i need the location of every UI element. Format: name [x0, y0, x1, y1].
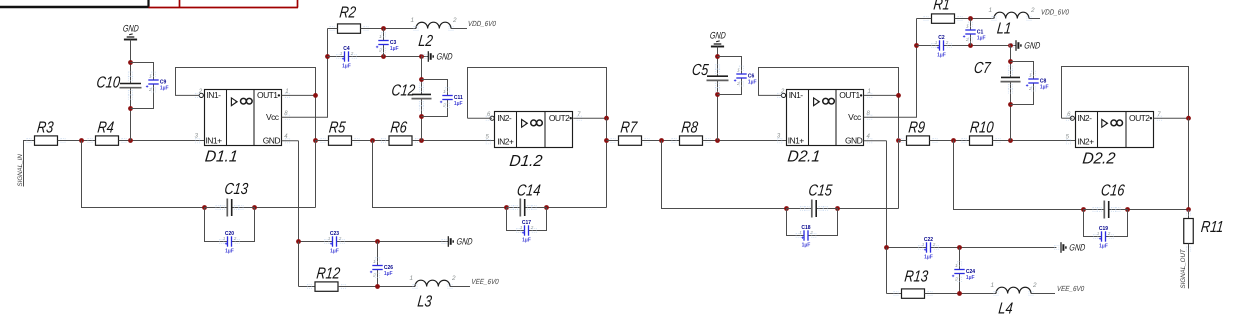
svg-text:1: 1 [1097, 231, 1100, 236]
svg-text:2: 2 [452, 17, 457, 24]
svg-text:1µF: 1µF [748, 80, 757, 86]
svg-text:1: 1 [922, 242, 925, 247]
svg-text:1: 1 [988, 7, 992, 14]
svg-text:1µF: 1µF [1099, 244, 1108, 250]
svg-text:D1.1: D1.1 [204, 148, 239, 165]
svg-text:L2: L2 [418, 33, 434, 51]
svg-text:L4: L4 [998, 300, 1014, 318]
svg-text:C6: C6 [748, 73, 755, 79]
svg-text:GND: GND [845, 136, 863, 146]
svg-text:8: 8 [284, 111, 288, 117]
svg-text:C16: C16 [1100, 182, 1126, 200]
svg-text:R6: R6 [390, 119, 409, 137]
svg-text:1: 1 [799, 230, 802, 235]
svg-text:C5: C5 [691, 62, 710, 80]
svg-text:1: 1 [340, 51, 343, 56]
svg-text:1µF: 1µF [160, 86, 169, 92]
svg-text:1: 1 [868, 89, 871, 95]
svg-text:IN2-: IN2- [497, 113, 512, 123]
svg-text:IN1+: IN1+ [788, 136, 805, 146]
svg-text:R5: R5 [328, 119, 347, 137]
svg-text:VEE_6V0: VEE_6V0 [1057, 286, 1085, 294]
svg-text:1µF: 1µF [966, 275, 975, 281]
svg-text:OUT1: OUT1 [839, 90, 860, 100]
svg-text:GND: GND [1024, 41, 1041, 51]
svg-text:1: 1 [409, 275, 413, 282]
svg-text:GND: GND [263, 136, 281, 146]
svg-text:1µF: 1µF [390, 46, 399, 52]
svg-text:1: 1 [990, 282, 994, 289]
svg-text:1: 1 [410, 17, 414, 24]
svg-text:1µF: 1µF [384, 271, 393, 277]
svg-text:2: 2 [350, 51, 354, 56]
svg-text:1: 1 [935, 40, 938, 45]
svg-text:VDD_6V0: VDD_6V0 [1041, 9, 1070, 17]
svg-text:1µF: 1µF [225, 249, 234, 255]
svg-text:R3: R3 [36, 119, 54, 137]
svg-text:C12: C12 [391, 82, 416, 100]
svg-text:R13: R13 [904, 268, 929, 286]
svg-text:R11: R11 [1200, 219, 1224, 237]
svg-text:C7: C7 [973, 60, 992, 78]
svg-text:2: 2 [932, 242, 936, 247]
svg-text:VEE_6V0: VEE_6V0 [471, 279, 499, 287]
svg-text:4: 4 [867, 134, 871, 140]
svg-text:VDD_6V0: VDD_6V0 [468, 21, 497, 29]
svg-text:8: 8 [867, 111, 871, 117]
svg-text:D2.1: D2.1 [787, 148, 822, 165]
svg-text:C14: C14 [516, 182, 541, 200]
svg-text:2: 2 [945, 40, 949, 45]
svg-text:GND: GND [1069, 243, 1086, 253]
svg-text:7: 7 [1157, 112, 1161, 118]
svg-text:OUT2: OUT2 [1129, 113, 1150, 123]
svg-text:1µF: 1µF [330, 249, 339, 255]
svg-text:4: 4 [284, 134, 288, 140]
svg-text:IN2-: IN2- [1078, 113, 1093, 123]
svg-text:1µF: 1µF [342, 64, 351, 70]
svg-text:C9: C9 [160, 79, 167, 85]
svg-text:C24: C24 [966, 269, 975, 275]
svg-text:Vcc: Vcc [848, 112, 862, 122]
svg-text:L3: L3 [417, 293, 433, 311]
svg-text:7: 7 [577, 112, 581, 118]
svg-text:2: 2 [809, 230, 813, 235]
svg-text:1µF: 1µF [454, 101, 463, 107]
svg-text:1µF: 1µF [937, 53, 946, 59]
svg-text:C13: C13 [224, 181, 249, 199]
svg-text:C3: C3 [390, 40, 397, 46]
svg-text:R2: R2 [339, 4, 357, 22]
svg-text:IN2+: IN2+ [1078, 137, 1095, 147]
svg-text:2: 2 [198, 89, 203, 95]
svg-text:2: 2 [1030, 7, 1035, 14]
svg-text:2: 2 [451, 275, 456, 282]
svg-text:Vcc: Vcc [266, 112, 280, 122]
svg-text:1µF: 1µF [1040, 85, 1049, 91]
svg-text:R8: R8 [681, 119, 699, 137]
svg-text:2: 2 [233, 236, 237, 241]
svg-text:2: 2 [780, 89, 785, 95]
svg-text:SIGNAL_IN: SIGNAL_IN [17, 154, 24, 187]
svg-text:2: 2 [338, 236, 342, 241]
svg-text:OUT2: OUT2 [549, 113, 570, 123]
svg-text:1: 1 [285, 89, 288, 95]
svg-text:IN1+: IN1+ [206, 136, 223, 146]
svg-text:IN1-: IN1- [789, 90, 804, 100]
svg-text:C15: C15 [808, 182, 834, 200]
svg-text:C26: C26 [384, 265, 393, 271]
svg-text:1µF: 1µF [924, 255, 933, 261]
svg-text:IN1-: IN1- [207, 90, 222, 100]
svg-text:SIGNAL_OUT: SIGNAL_OUT [1180, 248, 1187, 288]
svg-text:C10: C10 [96, 74, 121, 92]
svg-text:D1.2: D1.2 [509, 153, 544, 170]
svg-text:1µF: 1µF [802, 243, 811, 249]
svg-text:OUT1: OUT1 [257, 90, 278, 100]
svg-text:GND: GND [456, 237, 473, 247]
svg-text:R1: R1 [933, 0, 951, 14]
svg-text:2: 2 [1107, 231, 1111, 236]
svg-text:R9: R9 [908, 119, 926, 137]
svg-text:2: 2 [530, 225, 534, 230]
svg-text:1: 1 [223, 236, 226, 241]
svg-text:C1: C1 [977, 29, 984, 35]
svg-text:GND: GND [436, 52, 453, 62]
svg-text:GND: GND [709, 29, 726, 40]
svg-text:D2.2: D2.2 [1082, 150, 1117, 167]
svg-text:C11: C11 [454, 95, 463, 101]
svg-text:C4: C4 [343, 46, 350, 52]
svg-text:R10: R10 [969, 119, 994, 137]
svg-text:R4: R4 [97, 119, 115, 137]
svg-text:L1: L1 [996, 20, 1012, 38]
svg-text:1µF: 1µF [522, 238, 531, 244]
svg-text:C2: C2 [938, 35, 945, 41]
svg-text:IN2+: IN2+ [497, 137, 514, 147]
svg-text:1: 1 [520, 225, 523, 230]
svg-text:C8: C8 [1040, 78, 1047, 84]
svg-text:GND: GND [122, 22, 139, 33]
svg-text:R12: R12 [316, 265, 341, 283]
svg-text:2: 2 [1032, 282, 1037, 289]
svg-text:1µF: 1µF [977, 36, 986, 42]
svg-text:R7: R7 [620, 119, 639, 137]
svg-text:1: 1 [328, 236, 331, 241]
